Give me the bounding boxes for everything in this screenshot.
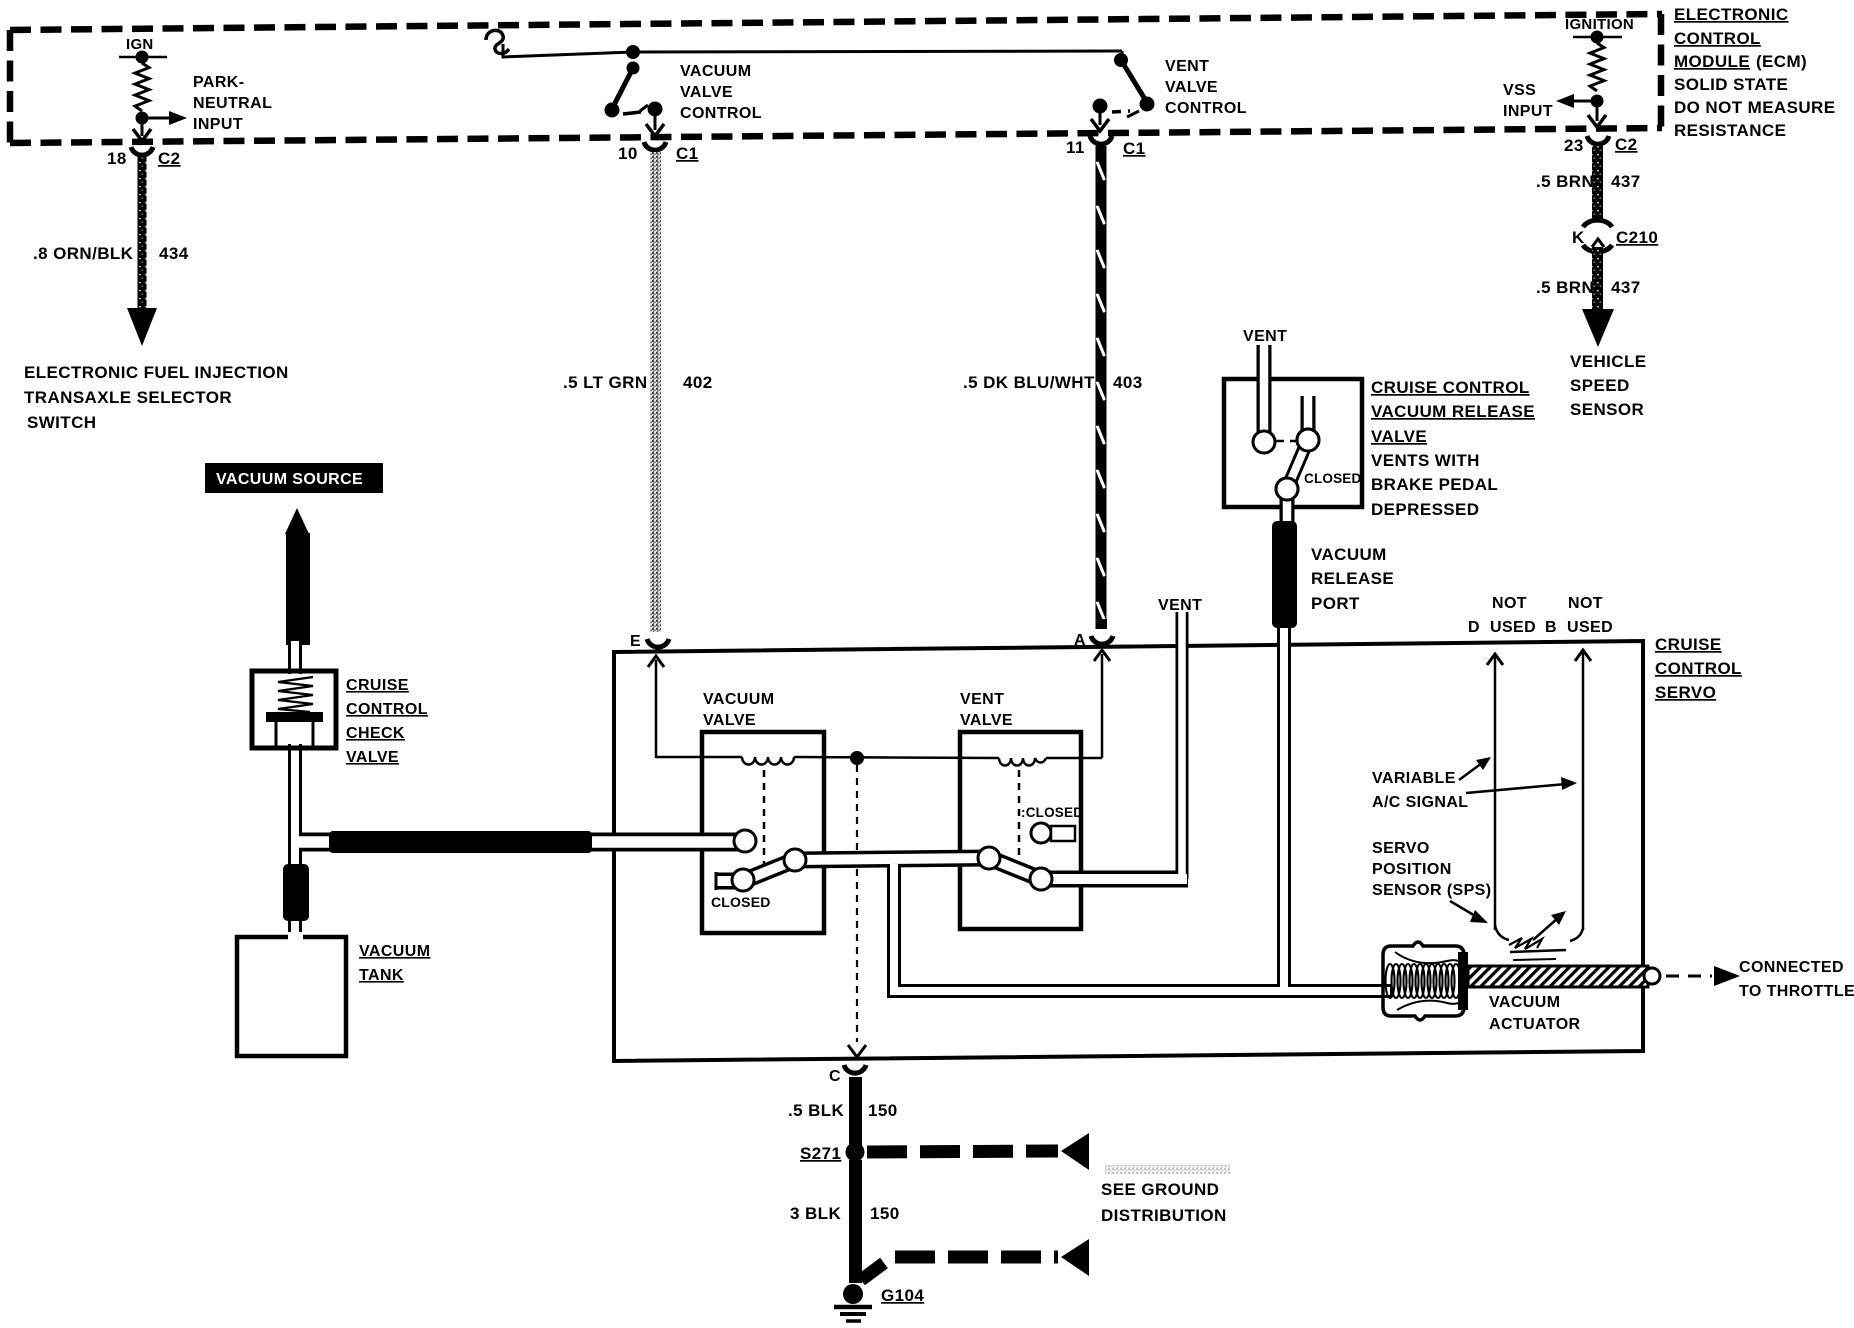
resistor (park-neutral pull-up, internal ECM) xyxy=(135,63,149,111)
vent valve box xyxy=(960,732,1081,929)
svg-text:VACUUM: VACUUM xyxy=(680,63,751,80)
hose release valve to port xyxy=(1272,521,1297,628)
actuator rod (hatched) to throttle xyxy=(1468,966,1648,987)
svg-text:POSITION: POSITION xyxy=(1372,861,1452,878)
pipe servo inlet xyxy=(590,833,740,852)
vacuum valve box xyxy=(702,732,824,933)
wire 437 destination arrow xyxy=(1582,309,1614,347)
plunger dashed link (vacuum valve) xyxy=(763,770,766,871)
wire 403 .5 DK BLU/WHT (black with white slashes) xyxy=(1096,146,1107,629)
cruise control servo box xyxy=(614,641,1643,1061)
svg-text:A/C SIGNAL: A/C SIGNAL xyxy=(1372,794,1468,811)
svg-text:VALVE: VALVE xyxy=(1165,79,1218,96)
arrow VSS INPUT xyxy=(1572,100,1597,103)
svg-text::CLOSED: :CLOSED xyxy=(1021,805,1083,820)
svg-text:ELECTRONIC: ELECTRONIC xyxy=(1674,5,1789,24)
svg-text:.5 BRN: .5 BRN xyxy=(1536,172,1594,191)
svg-text:TO THROTTLE: TO THROTTLE xyxy=(1739,983,1854,1000)
svg-text:USED: USED xyxy=(1490,619,1536,636)
switch: vacuum valve control driver xyxy=(626,45,640,59)
svg-text:3 BLK: 3 BLK xyxy=(790,1204,841,1223)
switch: vent valve control driver xyxy=(1121,51,1124,58)
svg-text:IGN: IGN xyxy=(126,36,154,53)
svg-text:CONTROL: CONTROL xyxy=(1674,29,1761,48)
svg-text:RESISTANCE: RESISTANCE xyxy=(1674,121,1786,140)
svg-text:VENTS WITH: VENTS WITH xyxy=(1371,451,1480,470)
svg-text:D: D xyxy=(1468,619,1480,636)
pipe check valve / tank riser xyxy=(288,644,302,674)
wire pin-23 output arrow xyxy=(1596,105,1599,121)
svg-text:VENT: VENT xyxy=(1243,328,1287,345)
wire terminal B (not used) xyxy=(1582,652,1585,930)
svg-text:SWITCH: SWITCH xyxy=(27,413,96,432)
connector A (servo) xyxy=(1096,619,1107,629)
plunger dashed link (vent valve) xyxy=(1018,770,1021,858)
svg-text:SENSOR (SPS): SENSOR (SPS) xyxy=(1372,882,1492,899)
svg-text:CRUISE CONTROL: CRUISE CONTROL xyxy=(1371,378,1530,397)
wire 150 3 BLK xyxy=(849,1160,862,1283)
ECM module dashed border box xyxy=(10,14,1662,143)
arrow into E xyxy=(648,656,664,667)
svg-text:SEE GROUND: SEE GROUND xyxy=(1101,1180,1219,1199)
wire IGN terminal bar xyxy=(119,56,167,59)
svg-text:SPEED: SPEED xyxy=(1570,376,1630,395)
pipe release valve outlet xyxy=(1280,493,1295,530)
servo position sensor wiper (hand-drawn) xyxy=(1495,925,1509,940)
label VACUUM SOURCE (reversed) xyxy=(205,463,383,493)
pipe cores (white inner) xyxy=(295,345,1390,991)
svg-text:11: 11 xyxy=(1066,138,1085,157)
svg-text:B: B xyxy=(1545,619,1557,636)
wire 434 destination arrow xyxy=(127,308,157,346)
arrow PARK-NEUTRAL INPUT xyxy=(142,117,172,120)
svg-text:(ECM): (ECM) xyxy=(1756,52,1807,71)
pipe tank tee to hose xyxy=(293,833,340,852)
svg-text:INPUT: INPUT xyxy=(193,116,243,133)
wire dashed to ground distribution (upper) xyxy=(867,1151,1058,1152)
svg-text:TRANSAXLE SELECTOR: TRANSAXLE SELECTOR xyxy=(24,388,232,407)
svg-text:CRUISE: CRUISE xyxy=(346,677,409,694)
svg-text:NEUTRAL: NEUTRAL xyxy=(193,95,272,112)
svg-text:CONTROL: CONTROL xyxy=(1165,100,1247,117)
wire dashed to pin C xyxy=(856,765,858,1042)
wire 434 .8 ORN/BLK xyxy=(138,156,147,309)
svg-text:BRAKE PEDAL: BRAKE PEDAL xyxy=(1371,475,1498,494)
node junction dot xyxy=(136,112,149,125)
svg-text:C1: C1 xyxy=(676,144,699,163)
hose vacuum source xyxy=(286,533,310,645)
svg-text:CLOSED: CLOSED xyxy=(711,894,771,910)
svg-text:CHECK: CHECK xyxy=(346,725,405,742)
svg-text:USED: USED xyxy=(1567,619,1613,636)
svg-text:C2: C2 xyxy=(158,149,181,168)
svg-text:S271: S271 xyxy=(800,1144,841,1163)
svg-text:CONTROL: CONTROL xyxy=(346,701,428,718)
arrow into A xyxy=(1094,650,1110,661)
svg-text:MODULE: MODULE xyxy=(1674,52,1750,71)
check valve spring xyxy=(278,677,313,712)
svg-text:437: 437 xyxy=(1611,172,1641,191)
svg-text:.8 ORN/BLK: .8 ORN/BLK xyxy=(33,244,134,263)
svg-text:DISTRIBUTION: DISTRIBUTION xyxy=(1101,1206,1227,1225)
svg-text:RELEASE: RELEASE xyxy=(1311,569,1394,588)
wire solenoid bus E to A xyxy=(656,756,742,759)
hose check valve riser lower xyxy=(283,864,309,921)
svg-text:C1: C1 xyxy=(1123,139,1146,158)
wire break squiggle on ECM bus xyxy=(486,30,509,53)
svg-text:G104: G104 xyxy=(881,1286,924,1305)
ground G104 xyxy=(843,1284,863,1304)
svg-text:VARIABLE: VARIABLE xyxy=(1372,770,1456,787)
pipe vent (servo) xyxy=(1176,612,1189,879)
svg-text:VENT: VENT xyxy=(960,691,1004,708)
svg-text:10: 10 xyxy=(618,144,638,163)
svg-text:150: 150 xyxy=(870,1204,900,1223)
svg-text:SENSOR: SENSOR xyxy=(1570,400,1644,419)
wire 402 .5 LT GRN (stippled) xyxy=(650,152,661,632)
svg-text:VALVE: VALVE xyxy=(960,712,1013,729)
cruise control vacuum release valve box xyxy=(1224,379,1362,507)
svg-text:CRUISE: CRUISE xyxy=(1655,635,1722,654)
svg-text:VACUUM RELEASE: VACUUM RELEASE xyxy=(1371,402,1535,421)
pipe vent (top) into release valve xyxy=(1257,345,1272,436)
label SEE GROUND DISTRIBUTION xyxy=(1105,1165,1230,1174)
svg-text:434: 434 xyxy=(159,244,189,263)
cruise control check valve box xyxy=(252,671,336,748)
svg-text:VACUUM: VACUUM xyxy=(359,943,430,960)
svg-text:.5 BLK: .5 BLK xyxy=(788,1101,845,1120)
wire 150 .5 BLK xyxy=(849,1077,862,1147)
svg-text:INPUT: INPUT xyxy=(1503,103,1553,120)
svg-text:18: 18 xyxy=(107,149,127,168)
svg-text:403: 403 xyxy=(1113,373,1143,392)
svg-text:ELECTRONIC FUEL INJECTION: ELECTRONIC FUEL INJECTION xyxy=(24,363,289,382)
release valve dashed link xyxy=(1276,440,1297,443)
svg-text:ACTUATOR: ACTUATOR xyxy=(1489,1016,1581,1033)
svg-text:VACUUM SOURCE: VACUUM SOURCE xyxy=(216,471,363,488)
svg-text:DEPRESSED: DEPRESSED xyxy=(1371,500,1479,519)
svg-text:23: 23 xyxy=(1564,136,1584,155)
svg-text:VSS: VSS xyxy=(1503,82,1536,99)
svg-text:SERVO: SERVO xyxy=(1372,840,1430,857)
svg-text:.5 BRN: .5 BRN xyxy=(1536,278,1594,297)
wire 437 .5 BRN upper xyxy=(1592,146,1603,220)
svg-text:VALVE: VALVE xyxy=(346,749,399,766)
svg-text:.5 DK BLU/WHT: .5 DK BLU/WHT xyxy=(963,373,1095,392)
vacuum tank box xyxy=(237,937,346,1056)
node junction dot xyxy=(1591,95,1604,108)
channel to vacuum actuator xyxy=(894,864,1392,991)
wire pin-11 output arrow xyxy=(1099,111,1102,125)
svg-text:PORT: PORT xyxy=(1311,594,1360,613)
splice S271 xyxy=(846,1143,865,1162)
svg-text:437: 437 xyxy=(1611,278,1641,297)
pipe vacuum release port down to actuator channel xyxy=(1277,624,1291,991)
wire dashed to ground distribution (lower) xyxy=(861,1263,884,1280)
svg-text:CONNECTED: CONNECTED xyxy=(1739,959,1844,976)
svg-text:SOLID STATE: SOLID STATE xyxy=(1674,75,1788,94)
node splice on solenoid bus xyxy=(850,751,864,765)
svg-text:VALVE: VALVE xyxy=(1371,427,1427,446)
svg-text:K: K xyxy=(1572,228,1585,247)
valve port balls xyxy=(732,429,1319,891)
svg-text:VENT: VENT xyxy=(1158,597,1202,614)
coil vent valve solenoid xyxy=(999,758,1046,766)
check valve stem walls xyxy=(275,722,278,748)
resistor (VSS pull-up, internal ECM) xyxy=(1590,43,1604,91)
wire dashed link to throttle xyxy=(1666,975,1712,978)
svg-text:PARK-: PARK- xyxy=(193,74,244,91)
svg-text:VEHICLE: VEHICLE xyxy=(1570,352,1646,371)
svg-text:VALVE: VALVE xyxy=(680,84,733,101)
vacuum actuator body xyxy=(1383,942,1464,1020)
hose (thick) tank tee to servo xyxy=(329,831,592,853)
release valve rod xyxy=(1287,440,1308,489)
svg-text:IGNITION: IGNITION xyxy=(1565,16,1634,33)
svg-text:C210: C210 xyxy=(1616,228,1658,247)
pipe casings (black outer) xyxy=(293,345,1392,991)
svg-text:E: E xyxy=(630,633,641,650)
svg-text:C2: C2 xyxy=(1615,135,1638,154)
svg-text:C: C xyxy=(829,1068,841,1085)
svg-text:VENT: VENT xyxy=(1165,58,1209,75)
svg-text:NOT: NOT xyxy=(1568,595,1603,612)
svg-text:.5 LT GRN: .5 LT GRN xyxy=(563,373,648,392)
pipe release-valve inner stub xyxy=(1301,396,1316,433)
svg-text:A: A xyxy=(1074,632,1086,649)
svg-text:VACUUM: VACUUM xyxy=(1489,994,1560,1011)
wire 437 .5 BRN lower xyxy=(1592,247,1603,313)
wire terminal D (not used) xyxy=(1494,656,1497,930)
arrow vacuum source up xyxy=(285,508,309,534)
wire pin-10 output arrow xyxy=(654,114,657,130)
channel valve rod assembly xyxy=(716,858,1188,881)
svg-text:VALVE: VALVE xyxy=(703,712,756,729)
svg-text:402: 402 xyxy=(683,373,713,392)
svg-text:CONTROL: CONTROL xyxy=(1655,659,1742,678)
svg-text:150: 150 xyxy=(868,1101,898,1120)
vacuum actuator spring xyxy=(1386,964,1461,998)
coil vacuum valve solenoid xyxy=(742,757,794,765)
closed stub cap (vacuum valve) xyxy=(715,872,718,890)
svg-text:CONTROL: CONTROL xyxy=(680,105,762,122)
wire pin-18 output arrow xyxy=(141,122,144,136)
check valve seat bar xyxy=(266,712,323,722)
svg-text:VACUUM: VACUUM xyxy=(1311,545,1387,564)
closed port (vent valve) xyxy=(1031,823,1051,843)
svg-text:SERVO: SERVO xyxy=(1655,683,1716,702)
wire internal ECM bus to valve drivers xyxy=(503,44,1122,57)
svg-text:NOT: NOT xyxy=(1492,595,1527,612)
svg-text:DO NOT MEASURE: DO NOT MEASURE xyxy=(1674,98,1835,117)
svg-text:TANK: TANK xyxy=(359,967,404,984)
svg-text:VACUUM: VACUUM xyxy=(703,691,774,708)
svg-text:CLOSED: CLOSED xyxy=(1304,471,1362,486)
